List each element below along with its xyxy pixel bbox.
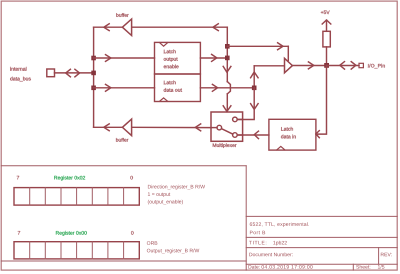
clock notch bottom latch U2 xyxy=(160,98,168,101)
mux wiper xyxy=(222,129,233,134)
arrow right latch U1 out xyxy=(212,54,217,61)
mux internal stubs xyxy=(211,119,243,135)
port square internal data bus xyxy=(47,69,55,77)
node junction bus/databus xyxy=(91,71,96,76)
clock notch bottom latch U4 xyxy=(277,146,285,150)
bidirectional arrow I/O pin xyxy=(340,62,356,70)
node junction bus/latchA xyxy=(91,56,96,61)
wire data_bus to left bus xyxy=(55,72,94,74)
port square I/O pin xyxy=(359,63,363,67)
wire pin node to I/O port xyxy=(327,65,360,67)
buffer bottom (read port) xyxy=(122,119,131,136)
arrow right on tristate enable branch xyxy=(278,43,283,50)
register 0x00 (output register) xyxy=(18,231,134,236)
clock notch top latch U1 xyxy=(160,43,168,47)
buffer top (readback direction reg) xyxy=(122,19,131,36)
resistor R pull-up xyxy=(323,31,330,47)
register 0x02 (direction register) xyxy=(17,176,133,181)
internal data_bus label xyxy=(10,67,31,82)
mux contact circle left xyxy=(217,125,222,130)
arrow up to tristate xyxy=(251,72,259,78)
label buffer top xyxy=(116,13,128,17)
latch U1 output enable box xyxy=(155,42,201,74)
node junction data out xyxy=(252,86,257,91)
register 0x00 side labels xyxy=(147,241,199,253)
wire latch U2 out to node xyxy=(200,87,252,89)
wire data out node up to tristate input xyxy=(254,66,284,88)
arrow left on top wire (near bus) xyxy=(104,24,109,31)
arrow left on top wire (near corner) xyxy=(213,24,218,31)
node junction I/O pin xyxy=(324,63,329,68)
title block text xyxy=(248,222,391,268)
register panel divider xyxy=(1,166,397,270)
arrow left into latch data in xyxy=(316,131,319,138)
latch U1 text xyxy=(164,50,179,69)
node junction bus/latchB xyxy=(91,86,96,91)
wire resistor to pin node xyxy=(326,47,328,66)
output enable vertical net x=227 xyxy=(227,27,230,112)
green label Register 0x00 xyxy=(56,231,87,236)
latch U4 data in box xyxy=(269,119,316,150)
node junction enable/tristate branch xyxy=(225,44,230,49)
label buffer bottom xyxy=(116,138,128,142)
wire tristate out to pin node xyxy=(292,65,324,67)
top readback wire xyxy=(94,26,228,28)
label I/O_Pin xyxy=(368,64,385,69)
green label Register 0x02 xyxy=(54,176,85,181)
title block lines xyxy=(246,215,397,217)
register 0x02 box xyxy=(14,188,139,206)
mux contact circle bottom right xyxy=(233,133,238,138)
wire pin node down to latch data in xyxy=(316,66,327,135)
arrow left latch data in out xyxy=(254,131,258,139)
arrow right into latch U2 xyxy=(106,84,111,91)
wire bus to latch U1 xyxy=(94,57,155,59)
arrow down to mux input xyxy=(251,104,259,110)
latch U2 data out box xyxy=(155,74,201,102)
bidirectional arrow data_bus xyxy=(66,69,80,77)
latch U2 text xyxy=(164,81,182,92)
node junction enable/latchU1 xyxy=(225,56,230,61)
arrow right latch U2 out xyxy=(212,84,217,91)
register 0x00 box xyxy=(14,242,139,259)
wire bus to latch U2 xyxy=(94,87,155,89)
arrow left mux out near mux xyxy=(195,124,200,131)
arrow right into latch U1 xyxy=(106,55,111,62)
multiplexer box xyxy=(211,112,243,141)
mux output wire to bus (bottom) xyxy=(94,126,211,128)
arrow right tristate out xyxy=(308,62,313,69)
mux contact circle top right xyxy=(233,117,238,122)
arrow down on enable net upper xyxy=(223,66,231,72)
arrow left near bus (bottom) xyxy=(104,124,109,131)
latch U4 text xyxy=(281,127,296,138)
tristate enable branch wire xyxy=(227,46,288,60)
wire latch U1 out to node xyxy=(200,57,227,59)
wire latch data in out to mux xyxy=(237,134,269,136)
+5V power symbol xyxy=(321,11,330,14)
tri-state buffer U3 xyxy=(285,58,293,73)
left bus vertical wire xyxy=(93,27,95,127)
arrow down on enable net lower (into mux) xyxy=(223,106,231,112)
wire data out node down to mux input xyxy=(237,88,254,120)
label Multiplexer xyxy=(213,143,237,148)
register 0x02 side labels xyxy=(148,185,205,205)
